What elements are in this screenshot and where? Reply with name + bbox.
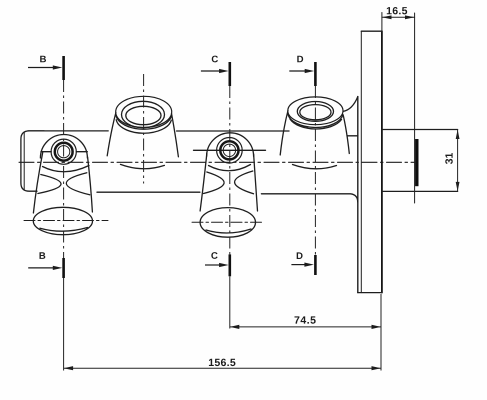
tick C bottom [229, 254, 232, 276]
16.5 dim arrow left [382, 15, 392, 19]
boss B port circle outer [51, 139, 76, 164]
flange front silhouette line [357, 97, 359, 293]
16.5 dim arrow right [405, 15, 415, 19]
pushrod boot thick black bar [415, 139, 418, 186]
section C top [201, 62, 230, 329]
boss C shoulder arc [209, 165, 251, 171]
156.5 arrow left [64, 366, 74, 370]
center reservoir boss collar arc 1 [116, 115, 171, 129]
16.5 dimension line [382, 16, 415, 18]
boss C X-curve left [204, 172, 225, 194]
snout top edge and 31-dim top extension [382, 129, 458, 131]
boss B bottom ellipse [33, 207, 92, 234]
label B top [40, 56, 46, 63]
center reservoir boss bore inner ellipse [126, 106, 161, 124]
31 dimension line [457, 130, 459, 192]
body top edge middle segment [177, 130, 289, 132]
label C top [212, 56, 218, 63]
boss B flare right side [88, 157, 93, 212]
label B bottom [39, 252, 45, 259]
boss D bore bottom arc [293, 165, 337, 169]
tick C top [229, 62, 232, 86]
boss B X-curve right [66, 173, 89, 195]
label D bottom [297, 252, 303, 259]
boss D cone right side [343, 116, 349, 154]
right extension line from flange bottom to dims [380, 294, 382, 371]
label D top [297, 56, 303, 63]
boss D collar arc 1 [288, 114, 343, 127]
boss D cone left side [280, 111, 288, 156]
boss C port circle thick [220, 141, 238, 159]
center reservoir boss collar arc 2 [116, 120, 171, 134]
boss B bottom inner arc [40, 228, 88, 232]
boss B X-curve left [38, 175, 61, 194]
boss C flare right side [254, 154, 258, 211]
156.5 arrow right [372, 366, 382, 370]
boss D outer rim ellipse [288, 97, 343, 125]
31 dim arrow top [456, 130, 460, 140]
boss C outer arc [207, 133, 254, 157]
boss D bore inner ellipse [300, 105, 331, 120]
boss B bottom ellipse horizontal centerline [24, 220, 108, 222]
boss B flare left side [33, 153, 42, 214]
74.5 dimension [230, 325, 381, 329]
rib from boss D to flange [343, 97, 358, 112]
arrow C bottom [205, 264, 221, 266]
boss C bottom ellipse horizontal centerline [192, 221, 263, 223]
boss B port step line left stub [41, 151, 51, 153]
16.5 left extension line [381, 13, 383, 32]
label 156.5 [209, 359, 236, 366]
section D top [289, 62, 315, 275]
label 74.5 [294, 316, 315, 323]
body bottom edge right segment with fillet into flange [261, 194, 357, 202]
boss D bore outer ellipse [297, 102, 333, 122]
left end cap inner chamfer line [23, 133, 25, 190]
center boss bore bottom arc [121, 164, 165, 168]
boss C bottom inner arc [206, 229, 251, 233]
flange top edge [361, 30, 382, 32]
C extension line down to 74.5 dim [229, 276, 231, 328]
snout end face / 16.5 right extension line [414, 13, 416, 203]
section line D vertical centerline [314, 86, 316, 255]
boss C bottom ellipse [200, 208, 255, 238]
section B top [28, 56, 64, 371]
center reservoir boss outer rim ellipse [116, 96, 172, 127]
center reservoir boss vertical centerline [143, 74, 145, 184]
center reservoir boss cone left side [107, 113, 116, 156]
boss C step line through port [194, 149, 266, 151]
boss C flare left side [200, 153, 207, 211]
center reservoir boss cone right side [172, 114, 179, 157]
tick B bottom [62, 258, 65, 278]
label C bottom [211, 252, 217, 259]
boss C port circle outer [217, 138, 243, 164]
flange left face line [360, 31, 362, 292]
body top edge left segment [28, 130, 108, 132]
tick D bottom [314, 255, 317, 275]
boss B port step line right stub [76, 151, 87, 153]
boss B port circle inner [58, 146, 70, 158]
156.5 dimension [64, 366, 381, 370]
flange right face [381, 31, 383, 292]
arrow D bottom [291, 264, 306, 266]
156.5 dimension line [64, 367, 381, 369]
body bottom edge left segment [97, 191, 200, 193]
boss B port circle thick [55, 143, 73, 161]
label 31 rotated [445, 153, 452, 164]
74.5 dimension line [230, 326, 381, 328]
body top edge right short segment [347, 135, 358, 137]
boss D collar arc 2 [290, 119, 342, 129]
B extension line down to 156.5 dim [63, 278, 65, 371]
snout bottom edge and 31-dim bottom extension [382, 190, 458, 192]
arrow D top [289, 70, 306, 72]
arrow B bottom [28, 267, 54, 269]
boss B shoulder arc [43, 166, 90, 172]
tick B top [62, 56, 65, 80]
flange bottom edge [358, 292, 382, 294]
74.5 arrow right [372, 325, 382, 329]
arrow C top [201, 70, 221, 72]
boss C port circle inner [223, 144, 235, 156]
arrow B top [28, 67, 55, 69]
31 dim arrow bottom [456, 182, 460, 192]
boss B outer arc [40, 134, 87, 158]
section line B vertical centerline [63, 80, 65, 258]
section line C vertical centerline [229, 86, 231, 254]
boss C X-curve right [235, 171, 254, 194]
left end cap outline [21, 131, 44, 191]
label 16.5 [387, 7, 407, 14]
main horizontal centerline [19, 161, 415, 163]
tick D top [314, 62, 317, 86]
74.5 arrow left [230, 325, 240, 329]
center reservoir boss bore outer ellipse [122, 101, 165, 127]
